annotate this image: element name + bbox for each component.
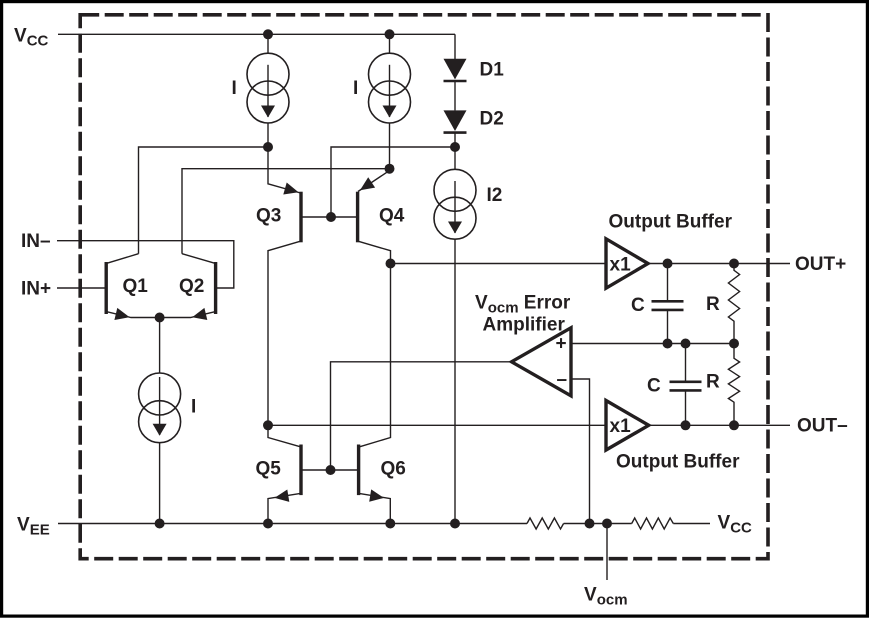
svg-text:OUT+: OUT+ bbox=[795, 254, 846, 275]
node C Q5 collector takeoff bbox=[263, 420, 273, 430]
label OUT+ bbox=[795, 254, 846, 275]
node diode bias junction bbox=[450, 142, 460, 152]
node lower output / R bbox=[729, 420, 739, 430]
label + input bbox=[556, 334, 567, 355]
wire left current source to folding node bbox=[267, 123, 269, 147]
wire error amp + input to CM sense bbox=[571, 343, 734, 345]
svg-text:IN+: IN+ bbox=[21, 278, 51, 299]
svg-text:x1: x1 bbox=[610, 254, 632, 275]
capacitor C bottom bbox=[670, 344, 702, 426]
label IN- bbox=[21, 231, 51, 252]
label Q1 bbox=[123, 276, 149, 297]
svg-text:R: R bbox=[706, 372, 720, 393]
node divider / Vocm pin bbox=[602, 519, 612, 529]
svg-text:I: I bbox=[191, 397, 196, 418]
wire Q2 emitter to tail node bbox=[160, 312, 215, 318]
svg-text:C: C bbox=[647, 376, 661, 397]
wire Q2 collector diagonal bbox=[182, 254, 215, 264]
IC boundary dashed box bbox=[80, 15, 768, 559]
svg-text:Q6: Q6 bbox=[381, 458, 406, 479]
wire right current source to folding node bbox=[389, 123, 391, 169]
node divider / error amp - input bbox=[585, 519, 595, 529]
wire Q5 emitter to VEE rail bbox=[268, 493, 301, 523]
transistor Q3 bbox=[283, 183, 301, 243]
wire lower buffer output line bbox=[649, 424, 790, 426]
svg-text:OUT–: OUT– bbox=[797, 416, 848, 437]
label Q4 bbox=[379, 205, 405, 226]
capacitor C top bbox=[652, 264, 684, 344]
node top rail / current source I left bbox=[263, 29, 273, 39]
svg-text:Q3: Q3 bbox=[256, 205, 281, 226]
current source I (right top) bbox=[369, 53, 411, 123]
wire node B down to Q4 emitter bbox=[358, 171, 390, 192]
wire Q5/Q6 base link bbox=[301, 469, 359, 471]
node OUT+ takeoff bbox=[386, 259, 396, 269]
op-amp U2 Vocm error amplifier bbox=[512, 328, 572, 396]
label Vocm pin bbox=[584, 584, 628, 608]
wire Q1 collector diagonal bbox=[107, 254, 139, 264]
svg-text:Q2: Q2 bbox=[179, 276, 204, 297]
op-amp U1 output buffer top x1 bbox=[606, 239, 648, 288]
wire IN- input to Q2 base bbox=[57, 241, 234, 288]
op-amp U3 output buffer bottom x1 bbox=[606, 401, 649, 451]
node CM sense / bottom C bbox=[681, 339, 691, 349]
label x1 bottom bbox=[610, 416, 632, 437]
svg-text:Output Buffer: Output Buffer bbox=[616, 451, 740, 472]
current source I (tail) bbox=[139, 373, 181, 443]
svg-text:I: I bbox=[353, 78, 358, 99]
transistor Q2 bbox=[192, 262, 215, 320]
label I2 bbox=[487, 185, 503, 206]
resistor R bottom bbox=[728, 344, 739, 426]
wire top rail down to D1 bbox=[454, 34, 456, 59]
wire Q4 collector to OUT+ node bbox=[358, 241, 391, 263]
diode D1 bbox=[444, 59, 467, 81]
wire Vocm pin stem bbox=[606, 524, 608, 581]
svg-text:IN–: IN– bbox=[21, 231, 51, 252]
svg-text:Q1: Q1 bbox=[123, 276, 149, 297]
wire IN+ input to Q1 base bbox=[57, 287, 105, 289]
label VCC top left bbox=[14, 25, 49, 49]
node Q5/Q6 base bbox=[326, 465, 336, 475]
label Output Buffer top bbox=[609, 211, 733, 232]
label VEE bbox=[17, 514, 50, 538]
svg-text:R: R bbox=[706, 294, 720, 315]
label I right source bbox=[353, 78, 358, 99]
node top output / C bbox=[663, 259, 673, 269]
node lower output / C bbox=[681, 420, 691, 430]
label R bottom bbox=[706, 372, 720, 393]
wire Q6 emitter to VEE rail bbox=[359, 493, 390, 523]
label OUT- bbox=[797, 416, 848, 437]
transistor Q6 bbox=[359, 445, 384, 502]
wire tail node to tail current source bbox=[159, 318, 161, 374]
node VEE / Q5 emitter bbox=[263, 519, 273, 529]
svg-text:I: I bbox=[232, 78, 237, 99]
label D2 bbox=[480, 109, 504, 130]
wire node C down to Q5 collector bbox=[268, 425, 301, 447]
current source I (left top) bbox=[247, 53, 289, 123]
node top rail / current source I right bbox=[385, 29, 395, 39]
transistor Q4 bbox=[358, 177, 376, 242]
wire node A to Q1 collector riser bbox=[139, 147, 269, 254]
label Q5 bbox=[256, 458, 282, 479]
wire I2 down to VEE rail bbox=[454, 239, 456, 523]
wire bias junction to Q3/Q4 bases bbox=[331, 147, 455, 217]
wire divider mid segment bbox=[564, 523, 632, 525]
label Vocm Error Amplifier bbox=[475, 292, 571, 335]
wire error amp - input to divider bbox=[571, 379, 590, 524]
transistor Q5 bbox=[275, 445, 302, 502]
label Q3 bbox=[256, 205, 281, 226]
wire rail to right current source bbox=[389, 34, 391, 53]
wire rail to left current source bbox=[267, 34, 269, 53]
label C bottom bbox=[647, 376, 661, 397]
wire VCC top rail bbox=[58, 33, 455, 35]
wire node A down to Q3 emitter bbox=[268, 147, 301, 193]
label Q2 bbox=[179, 276, 204, 297]
label D1 bbox=[480, 60, 505, 81]
resistor R top bbox=[728, 264, 739, 344]
label VCC bottom right bbox=[718, 513, 753, 537]
label - input bbox=[557, 370, 568, 391]
wire Q1 emitter to tail node bbox=[107, 312, 160, 318]
wire D2 junction to I2 bbox=[454, 133, 456, 170]
wire top buffer output line bbox=[648, 263, 790, 265]
node VEE / tail source bbox=[155, 519, 165, 529]
wire tail current source to VEE rail bbox=[159, 443, 161, 524]
diode D2 bbox=[444, 110, 467, 132]
node top output / R bbox=[729, 259, 739, 269]
svg-text:D1: D1 bbox=[480, 60, 505, 81]
node Q3/Q4 base bbox=[326, 212, 336, 222]
wire OUT+ node to top buffer input bbox=[391, 263, 607, 265]
svg-text:+: + bbox=[556, 334, 567, 355]
svg-text:Q5: Q5 bbox=[256, 458, 282, 479]
node VEE / I2 bbox=[450, 519, 460, 529]
node A Q3 emitter / source I bbox=[263, 142, 273, 152]
label x1 top bbox=[610, 254, 632, 275]
node B Q4 emitter / source I bbox=[385, 164, 395, 174]
label Output Buffer bottom bbox=[616, 451, 740, 472]
wire VEE bottom rail bbox=[58, 523, 527, 525]
node VEE / Q6 emitter bbox=[385, 519, 395, 529]
node CM sense / top C bbox=[663, 339, 673, 349]
label C top bbox=[631, 295, 645, 316]
wire Q3 collector down to node C bbox=[268, 241, 301, 425]
wire node B to Q2 collector riser bbox=[182, 169, 390, 254]
svg-text:Output Buffer: Output Buffer bbox=[609, 211, 733, 232]
svg-text:–: – bbox=[557, 370, 568, 391]
wire node C to lower buffer input bbox=[268, 424, 606, 426]
svg-text:I2: I2 bbox=[487, 185, 503, 206]
svg-text:Amplifier: Amplifier bbox=[483, 315, 566, 336]
wire D1 to D2 bbox=[454, 81, 456, 110]
label I tail source bbox=[191, 397, 196, 418]
wire OUT+ node down to Q6 collector bbox=[360, 264, 391, 447]
current source I2 bbox=[434, 169, 476, 239]
resistor R divider right bbox=[632, 518, 674, 529]
node CM sense / R junction bbox=[729, 339, 739, 349]
wire Q3/Q4 base link bbox=[301, 216, 358, 218]
svg-text:x1: x1 bbox=[610, 416, 632, 437]
label IN+ bbox=[21, 278, 51, 299]
wire error amp output to Q5/Q6 bases bbox=[331, 362, 512, 470]
svg-text:C: C bbox=[631, 295, 645, 316]
node common emitter bbox=[155, 313, 165, 323]
label I left source bbox=[232, 78, 237, 99]
wire divider to VCC label bbox=[673, 523, 710, 525]
label Q6 bbox=[381, 458, 406, 479]
resistor R divider left bbox=[527, 518, 564, 529]
transistor Q1 bbox=[106, 262, 129, 320]
label R top bbox=[706, 294, 720, 315]
svg-text:D2: D2 bbox=[480, 109, 504, 130]
svg-text:Q4: Q4 bbox=[379, 205, 405, 226]
